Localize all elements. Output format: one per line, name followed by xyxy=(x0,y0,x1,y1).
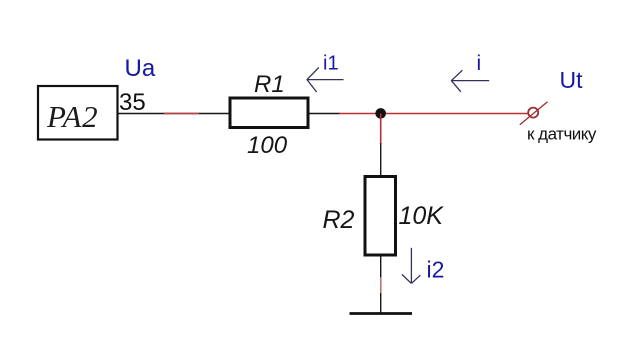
svg-text:10K: 10K xyxy=(399,202,445,230)
faint red segment on R2-ground wire xyxy=(380,277,382,293)
svg-text:PA2: PA2 xyxy=(46,99,98,134)
svg-text:Ua: Ua xyxy=(125,55,156,82)
ground xyxy=(350,312,413,315)
wire down to R2 (black part) xyxy=(380,143,382,176)
svg-text:i1: i1 xyxy=(323,53,339,75)
terminal slash xyxy=(520,102,548,125)
svg-text:Ut: Ut xyxy=(560,67,584,93)
sensor terminal circle xyxy=(528,108,538,118)
wire from R1 region to sensor terminal (red) xyxy=(339,113,528,115)
wire node down (red part) xyxy=(380,114,382,145)
svg-text:35: 35 xyxy=(119,89,146,116)
wire from R1 to node (black part) xyxy=(309,113,340,115)
svg-text:i: i xyxy=(477,52,482,75)
resistor R1 xyxy=(230,98,308,128)
wire from PA2 to R1 xyxy=(118,113,229,115)
svg-text:к датчику: к датчику xyxy=(527,125,597,144)
svg-text:R2: R2 xyxy=(323,206,355,234)
box PA2 (ammeter) xyxy=(38,86,118,140)
svg-text:100: 100 xyxy=(247,132,288,159)
wire R2 to ground (black) xyxy=(380,256,382,313)
node junction dot xyxy=(375,108,386,119)
current arrow i2 xyxy=(402,248,420,284)
resistor R2 xyxy=(365,177,396,256)
svg-text:i2: i2 xyxy=(427,257,445,283)
current arrow i1 xyxy=(307,68,344,93)
wire red segment on PA2-R1 wire xyxy=(164,113,199,115)
current arrow i xyxy=(451,70,489,92)
svg-text:R1: R1 xyxy=(254,71,285,98)
